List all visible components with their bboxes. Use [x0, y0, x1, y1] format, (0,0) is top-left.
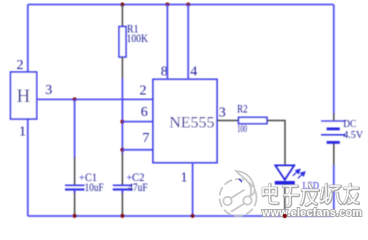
component H (box) — [11, 72, 37, 119]
svg-text:www.elecfans.com: www.elecfans.com — [261, 207, 362, 219]
wire right rail upper (top rail to battery) — [333, 5, 335, 115]
wire right rail lower (battery to bottom rail) — [333, 165, 335, 216]
node junction R1 top — [120, 3, 124, 7]
svg-text:4: 4 — [190, 64, 197, 79]
node junction C1 tap — [73, 97, 77, 101]
wire bottom rail — [28, 215, 334, 217]
svg-text:2: 2 — [17, 58, 24, 73]
LED D1 symbol — [276, 166, 295, 180]
svg-text:1: 1 — [181, 170, 188, 185]
node junction C1-ground — [73, 214, 77, 218]
svg-text:100: 100 — [237, 124, 247, 135]
battery DC pin upper (dark) — [333, 114, 335, 122]
watermark logo circle — [220, 171, 257, 216]
svg-text:R2: R2 — [237, 104, 248, 116]
svg-text:6: 6 — [141, 105, 148, 120]
battery DC pin lower (dark) — [333, 142, 335, 166]
resistor R2 body — [239, 117, 268, 123]
node junction pin7 — [120, 148, 124, 152]
wire H pin3 to NE555 pin2 — [37, 98, 153, 100]
svg-text:100K: 100K — [127, 33, 149, 45]
svg-text:7: 7 — [142, 131, 149, 146]
capacitor C1 plates — [65, 184, 85, 186]
node junction pin4 top — [186, 3, 190, 7]
node junction LED-ground — [283, 214, 287, 218]
capacitor C2 bottom pin (dark) — [121, 193, 123, 216]
svg-text:1: 1 — [19, 125, 26, 140]
wire pin 6 stub — [122, 121, 153, 123]
IC U1 NE555 box — [153, 79, 217, 162]
svg-text:3: 3 — [45, 83, 52, 98]
resistor R1 top pin (dark) — [121, 5, 123, 28]
LED arrows — [293, 169, 305, 178]
capacitor C1 top pin (dark) — [74, 157, 76, 185]
wire pin 7 stub — [122, 149, 153, 151]
resistor R1 bottom pin (dark) — [121, 57, 123, 79]
resistor R1 body — [119, 27, 126, 58]
node junction pin1-ground — [191, 214, 195, 218]
svg-text:NE555: NE555 — [169, 115, 214, 132]
svg-text:47uF: 47uF — [128, 182, 148, 194]
capacitor C2 plates — [113, 184, 133, 186]
svg-text:H: H — [17, 87, 30, 107]
wire junction down to C1 — [74, 99, 76, 158]
resistor R2 right pin going to LED (dark) — [267, 121, 285, 166]
wire pin 4 to top rail — [187, 5, 189, 80]
capacitor C2 top pin (dark) — [121, 153, 123, 185]
wire pin 8 to top rail — [166, 5, 168, 80]
LED cathode pin to ground (dark) — [284, 184, 286, 216]
svg-text:10uF: 10uF — [85, 182, 104, 194]
wire pin 1 to bottom rail — [192, 163, 194, 216]
battery BT1 plates — [321, 120, 346, 122]
wire H pin1 to bottom rail — [27, 119, 29, 216]
wire R1 down to pins 2/6/7 and C2 — [121, 79, 123, 155]
resistor R2 left pin (dark) — [217, 120, 239, 122]
watermark blue spark — [239, 179, 242, 182]
capacitor C1 bottom pin (dark) — [74, 193, 76, 216]
node junction pin8 top — [165, 3, 169, 7]
svg-text:2: 2 — [140, 84, 147, 99]
node junction pin6 — [120, 120, 124, 124]
svg-text:3: 3 — [219, 105, 226, 120]
wire top rail — [28, 4, 334, 6]
node junction LED-ground (over watermark) — [283, 214, 287, 218]
node junction C2-ground — [120, 214, 124, 218]
wire left rail (top to H pin 2) — [27, 5, 29, 73]
watermark chinese text 电子发烧友 (stylized strokes) — [263, 184, 358, 206]
svg-text:4.5V: 4.5V — [343, 129, 363, 141]
